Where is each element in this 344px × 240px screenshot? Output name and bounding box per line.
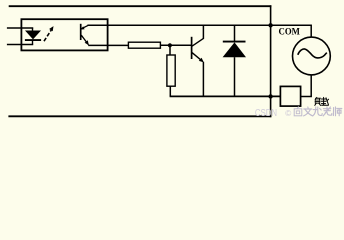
wire R1 to base bbox=[160, 44, 191, 46]
AC source V1 lead top bbox=[310, 25, 312, 36]
wire input top bbox=[7, 27, 33, 29]
phototransistor base bar bbox=[80, 24, 82, 40]
wire emitter to R1 bbox=[88, 44, 129, 46]
phototransistor collector arrowhead bbox=[80, 26, 84, 29]
light arrow bbox=[44, 30, 51, 41]
diode D2 top lead bbox=[234, 25, 236, 41]
watermark 向文龙老师 bbox=[294, 107, 342, 116]
wire top rail bbox=[9, 5, 272, 7]
LED D1 anode lead bbox=[32, 28, 34, 31]
transistor Q1 emitter lead bbox=[192, 53, 203, 62]
wire long vertical COM bus bbox=[270, 5, 272, 117]
diode D2 cathode bar bbox=[223, 41, 246, 43]
node junction dot C bbox=[168, 43, 172, 47]
svg-text:COM: COM bbox=[279, 27, 300, 38]
wire collector line bbox=[87, 24, 312, 26]
resistor R1 body bbox=[128, 42, 160, 48]
wire R2 to rail bbox=[169, 86, 171, 96]
AC source V1 circle bbox=[293, 37, 331, 75]
wire long bottom line bbox=[8, 115, 271, 117]
phototransistor emitter arrowhead bbox=[85, 40, 89, 45]
phototransistor collector diagonal bbox=[81, 25, 88, 28]
AC source V1 lead bottom bbox=[310, 75, 312, 97]
wire input bottom bbox=[7, 44, 33, 46]
phototransistor emitter diagonal bbox=[81, 35, 88, 44]
transistor Q1 emitter arrowhead bbox=[199, 58, 204, 63]
node junction dot B bbox=[268, 94, 272, 98]
optocoupler U1 box bbox=[21, 19, 107, 50]
transistor Q1 base bar bbox=[191, 37, 193, 59]
wire AC to load bbox=[300, 96, 312, 98]
node junction dot A bbox=[268, 23, 272, 27]
svg-text:©: © bbox=[285, 109, 291, 118]
wire bottom rail bbox=[170, 95, 281, 97]
wire junction to R2 bbox=[169, 45, 171, 55]
diode D2 triangle bbox=[223, 42, 246, 57]
svg-text:CSDN: CSDN bbox=[255, 108, 277, 119]
label 负载 (load) bbox=[315, 97, 329, 105]
load box bbox=[280, 86, 300, 106]
diode D2 bottom lead bbox=[234, 57, 236, 96]
wire Q1 emitter to rail bbox=[202, 62, 204, 97]
LED D1 cathode lead bbox=[32, 40, 34, 45]
resistor R2 body bbox=[167, 55, 175, 86]
transistor Q1 collector lead bbox=[202, 25, 204, 39]
AC source V1 sine wave bbox=[298, 49, 327, 58]
LED D1 cathode bar bbox=[25, 39, 41, 41]
LED D1 triangle bbox=[25, 31, 41, 40]
